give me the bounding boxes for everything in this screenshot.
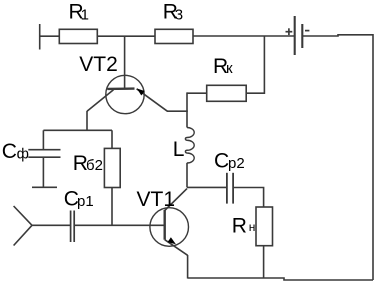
svg-text:1: 1 [81, 7, 89, 24]
svg-text:к: к [226, 60, 233, 77]
svg-text:р1: р1 [77, 193, 94, 210]
wire R3 to battery [193, 35, 294, 37]
svg-text:3: 3 [175, 7, 183, 24]
transistor VT2 [87, 75, 167, 113]
resistor R1 [59, 29, 97, 43]
wire Rb2 bottom to base node [111, 188, 113, 226]
wire VT2 base from node [124, 36, 126, 88]
resistor Rn [256, 207, 273, 246]
svg-text:б2: б2 [86, 157, 103, 174]
capacitor Cf [28, 150, 60, 158]
wire bus to Rb2 top [111, 130, 113, 148]
wire Rk left lead vertical [186, 92, 188, 127]
label - [305, 30, 309, 32]
svg-text:L: L [173, 138, 185, 161]
resistor Rb2 [104, 148, 120, 187]
svg-text:VT2: VT2 [79, 53, 118, 76]
wire node to Rk right lead [246, 36, 264, 93]
battery GB plus plate [294, 16, 296, 55]
wire VT1 base [74, 224, 165, 226]
wire VT2 collector down to bus [86, 111, 88, 130]
label + [286, 28, 293, 35]
svg-text:C: C [214, 150, 229, 173]
wire L node to Cp2 [187, 186, 227, 188]
wire bus to Cf [42, 130, 44, 149]
wire Cf bottom [42, 157, 44, 187]
wire R1 to R3 [97, 35, 155, 37]
wire Rk left [187, 92, 207, 94]
resistor Rk [207, 85, 247, 101]
wire terminal to R1 [40, 35, 60, 37]
capacitor Cp1 [71, 211, 75, 243]
wire input to Cp1 [32, 224, 71, 226]
svg-text:VT1: VT1 [137, 188, 176, 211]
terminal top-left supply bar [39, 24, 41, 50]
svg-text:C: C [2, 140, 17, 163]
svg-text:R: R [232, 214, 247, 237]
terminal Cf bottom bar [32, 186, 57, 188]
resistor R3 [155, 29, 193, 43]
wire bus VT2 collector net [43, 129, 112, 131]
capacitor Cp2 [227, 173, 233, 204]
wire Cp2 to Rn [233, 188, 264, 208]
wire Rn to bottom rail [263, 246, 265, 278]
inductor L [185, 128, 194, 164]
svg-text:р2: р2 [228, 155, 245, 172]
wire L bottom [186, 163, 188, 188]
input terminal fork [14, 206, 32, 246]
wire bottom rail [188, 278, 373, 280]
battery GB minus plate [301, 24, 303, 48]
wire battery to right edge [302, 35, 373, 280]
svg-text:н: н [249, 220, 256, 234]
wire VT1 emitter down [187, 255, 189, 279]
transistor VT1 [150, 189, 189, 256]
wire VT2 emitter to vertical net [167, 110, 188, 112]
svg-text:ф: ф [17, 146, 29, 163]
